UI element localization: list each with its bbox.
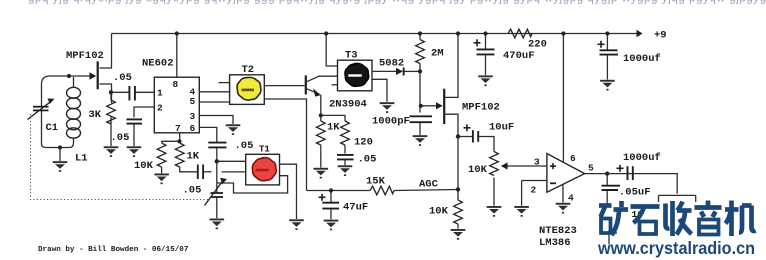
svg-text:5: 5 [588,163,594,174]
svg-text:MPF102: MPF102 [462,102,500,114]
svg-text:1: 1 [157,88,163,99]
svg-text:AGC: AGC [419,179,439,191]
svg-text:2: 2 [531,185,537,196]
svg-text:MPF102: MPF102 [66,50,104,62]
svg-text:1K: 1K [327,122,340,134]
svg-text:+9: +9 [654,30,667,42]
svg-text:10K: 10K [134,160,154,172]
svg-text:8: 8 [173,79,179,90]
svg-text:3K: 3K [89,109,102,121]
svg-text:6: 6 [190,123,196,134]
svg-text:T3: T3 [345,50,358,62]
svg-text:.05: .05 [111,132,130,144]
svg-text:1000uf: 1000uf [623,152,661,164]
svg-text:gpq yjg qrqyeipg jyg sgqyeypg: gpq yjg qrqyeipg jyg sgqyeypg gqwyjpg gg… [28,0,766,5]
svg-text:.05: .05 [358,154,377,166]
svg-text:C1: C1 [46,122,59,134]
svg-text:1000uf: 1000uf [623,53,661,65]
svg-text:.05uF: .05uF [619,187,651,199]
svg-text:4: 4 [568,193,574,204]
svg-text:47uF: 47uF [343,202,368,214]
svg-text:3: 3 [534,157,540,168]
svg-text:3: 3 [190,111,196,122]
svg-text:5082: 5082 [379,58,404,70]
svg-text:2: 2 [157,103,163,114]
svg-text:T1: T1 [259,145,270,155]
svg-text:Drawn by - Bill Bowden - 06/15: Drawn by - Bill Bowden - 06/15/07 [38,246,189,254]
svg-text:2N3904: 2N3904 [329,99,367,111]
svg-text:5: 5 [190,96,196,107]
svg-text:470uF: 470uF [503,50,535,62]
svg-text:1000pF: 1000pF [372,116,410,128]
svg-text:.05: .05 [235,140,254,152]
svg-text:.05: .05 [183,185,202,197]
svg-text:10K: 10K [429,206,449,218]
svg-text:L1: L1 [75,153,88,165]
svg-text:NTE823: NTE823 [539,225,577,237]
svg-text:7: 7 [175,123,181,134]
svg-text:www.crystalradio.cn: www.crystalradio.cn [597,238,755,258]
svg-text:220: 220 [528,39,547,51]
svg-text:10K: 10K [468,164,488,176]
svg-text:LM386: LM386 [539,237,571,249]
svg-text:NE602: NE602 [142,58,174,70]
svg-text:10uF: 10uF [489,122,514,134]
svg-text:1K: 1K [187,151,200,163]
svg-text:T2: T2 [242,64,255,76]
svg-text:.05: .05 [113,72,132,84]
svg-text:15K: 15K [366,176,386,188]
svg-text:6: 6 [570,153,576,164]
svg-text:120: 120 [354,137,373,149]
svg-text:2M: 2M [431,48,444,60]
